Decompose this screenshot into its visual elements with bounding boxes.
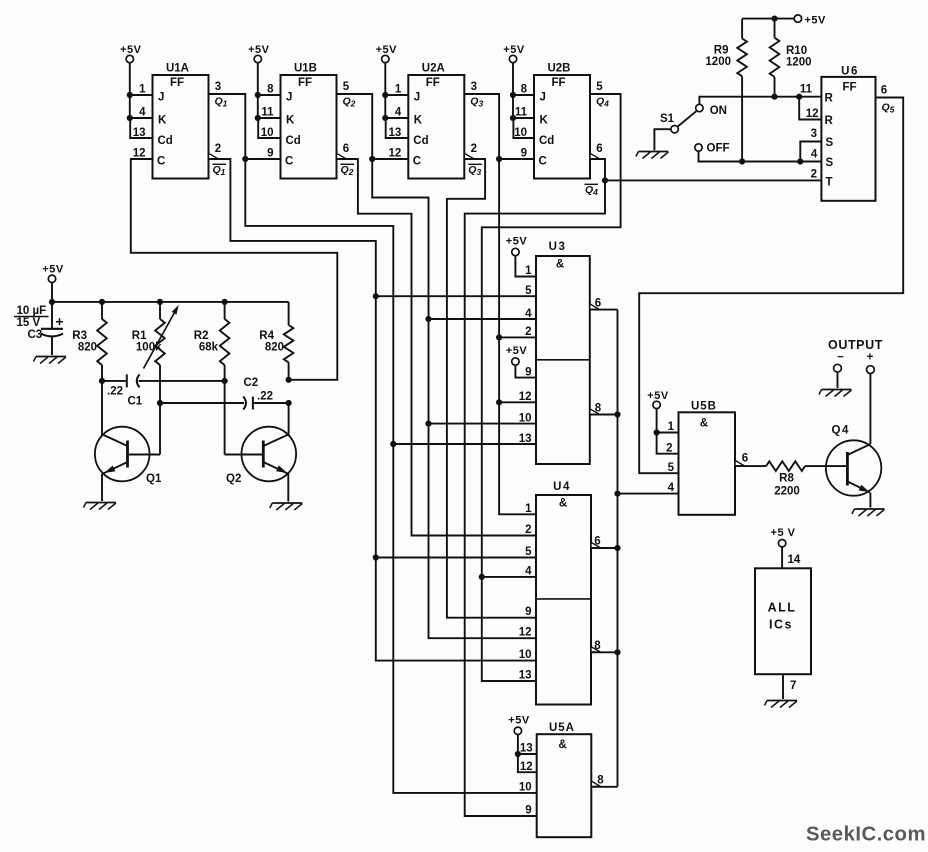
svg-text:820: 820 [78, 342, 97, 354]
svg-text:S: S [826, 157, 834, 169]
wire open-collector output bus (U3/U4/U5A outputs to U5B pin 4) [590, 310, 679, 787]
switch contact ON [696, 104, 727, 117]
svg-text:U2B: U2B [547, 63, 570, 75]
svg-text:R8: R8 [779, 473, 794, 485]
svg-text:10: 10 [514, 127, 527, 139]
wire U6 S pin 3 tie to pin 4 [800, 142, 821, 162]
svg-text:+5V: +5V [120, 44, 142, 56]
svg-text:Cd: Cd [539, 135, 554, 147]
wire net Q5 (U6 pin 6 to U5B pin 5) [639, 98, 903, 474]
svg-text:U1B: U1B [294, 63, 317, 75]
svg-text:T: T [826, 176, 833, 188]
svg-text:12: 12 [806, 108, 819, 120]
svg-text:10: 10 [261, 127, 274, 139]
svg-text:5: 5 [668, 462, 675, 474]
svg-text:FF: FF [170, 77, 184, 89]
resistor R2 68k [194, 302, 230, 381]
svg-text:12: 12 [520, 761, 533, 773]
ground for Q4 [852, 509, 885, 516]
svg-text:5: 5 [596, 81, 603, 93]
+5V supply terminal for oscillator [42, 264, 64, 302]
AND gate U3 (open-collector dual gate box) [519, 241, 602, 464]
svg-text:1200: 1200 [786, 57, 812, 69]
svg-text:C: C [539, 156, 547, 168]
flip-flop U2B (FF, J/K/Cd/C) [510, 63, 609, 179]
capacitor C3 (10uF 15V electrolytic) [14, 302, 63, 355]
svg-text:+5 V: +5 V [771, 527, 796, 539]
wire net Q̄1 (U1A pin 2 to U3 pin 5, U4 pins 5 and 10) [209, 159, 537, 661]
wire R1 to Q1 base [159, 403, 161, 455]
svg-text:U1A: U1A [166, 63, 189, 75]
svg-text:68k: 68k [199, 342, 219, 354]
svg-text:SeekIC.com: SeekIC.com [806, 824, 926, 846]
svg-text:OFF: OFF [707, 143, 730, 155]
ALL ICs power block [755, 568, 811, 699]
svg-text:1: 1 [668, 421, 675, 433]
wire net Q3 (U2A pin 3 to U2B clock, U3 pins 2 and 12, U4 pin 1) [464, 94, 536, 514]
svg-text:U6: U6 [841, 66, 859, 78]
svg-text:10: 10 [519, 649, 532, 661]
svg-text:R: R [825, 93, 834, 105]
+5V supply terminal top right [742, 14, 826, 26]
svg-text:9: 9 [525, 805, 531, 817]
svg-text:2: 2 [811, 169, 817, 181]
flip-flop U1B (FF, J/K/Cd/C) [255, 63, 356, 179]
wire U6 R pin 12 tie to pin 11 [799, 97, 821, 120]
svg-text:U2A: U2A [422, 63, 445, 75]
svg-text:15 V: 15 V [17, 317, 41, 329]
svg-text:Cd: Cd [158, 135, 173, 147]
svg-text:6: 6 [343, 143, 349, 155]
svg-text:R9: R9 [714, 45, 729, 57]
svg-text:+5V: +5V [805, 14, 827, 26]
flip-flop U6 (FF R R S S T) [800, 66, 895, 201]
svg-text:820: 820 [265, 342, 284, 354]
svg-text:&: & [559, 498, 567, 510]
svg-text:9: 9 [521, 148, 527, 160]
wire oscillator feedback to U1A clock (C pin 12) [131, 159, 337, 383]
svg-text:R2: R2 [194, 330, 209, 342]
+5V supply terminal for U5A [508, 715, 536, 773]
svg-text:S1: S1 [660, 113, 675, 125]
svg-text:R: R [825, 115, 834, 127]
svg-text:4: 4 [139, 107, 146, 119]
svg-text:1: 1 [139, 84, 146, 96]
svg-text:R3: R3 [72, 330, 87, 342]
svg-text:ALL: ALL [768, 601, 797, 615]
svg-text:4: 4 [525, 565, 532, 577]
ground for Q2 [270, 503, 303, 510]
svg-text:13: 13 [520, 743, 533, 755]
svg-text:.22: .22 [107, 386, 123, 398]
svg-text:Q2: Q2 [226, 473, 241, 485]
svg-text:6: 6 [742, 453, 748, 465]
svg-text:1: 1 [525, 503, 532, 515]
+5V supply terminal for U2A [376, 44, 398, 63]
svg-text:2: 2 [215, 143, 221, 155]
svg-text:.22: .22 [257, 391, 273, 403]
svg-text:S: S [826, 137, 834, 149]
svg-text:100k: 100k [136, 342, 162, 354]
svg-text:8: 8 [267, 84, 274, 96]
ground for C3 [34, 357, 67, 364]
svg-text:Cd: Cd [286, 135, 301, 147]
+5V supply terminal for U1A [120, 44, 142, 63]
svg-text:C: C [285, 156, 293, 168]
ground for Q1 [84, 503, 117, 510]
svg-text:K: K [286, 115, 295, 127]
svg-text:R4: R4 [259, 330, 274, 342]
svg-text:6: 6 [596, 143, 602, 155]
svg-text:+5V: +5V [647, 390, 669, 402]
svg-text:Q1: Q1 [146, 473, 162, 485]
wire OFF contact to U6 S pin 4 [699, 151, 822, 164]
svg-text:7: 7 [790, 680, 796, 692]
svg-text:5: 5 [525, 546, 532, 558]
OUTPUT terminals [828, 338, 883, 388]
svg-text:K: K [414, 115, 423, 127]
transistor Q1 (NPN) [95, 381, 162, 501]
svg-text:Q4: Q4 [832, 425, 850, 437]
AND gate U5B [666, 401, 748, 515]
capacitor C1 .22 and coupling wire [99, 374, 228, 407]
svg-text:3: 3 [215, 81, 221, 93]
svg-text:13: 13 [519, 433, 532, 445]
svg-text:FF: FF [551, 77, 565, 89]
svg-text:10: 10 [519, 412, 532, 424]
+5V supply terminal for U3 pin 1 [506, 236, 536, 277]
svg-text:1200: 1200 [705, 56, 731, 68]
wire net Q2 (U1B pin 5 to U2A clock, U3 pins 4 and 10, U4 pin 12) [337, 94, 537, 638]
svg-text:9: 9 [525, 366, 531, 378]
svg-text:J: J [286, 92, 292, 104]
ground for ALL ICs [765, 701, 798, 708]
svg-text:+5V: +5V [506, 236, 528, 248]
svg-text:12: 12 [519, 391, 532, 403]
ground for S1 [636, 152, 669, 159]
svg-text:K: K [540, 115, 549, 127]
transistor Q4 (NPN) [826, 374, 881, 508]
svg-text:+5V: +5V [42, 264, 64, 276]
switch contact OFF [695, 143, 730, 155]
svg-text:13: 13 [389, 127, 402, 139]
+5V supply terminal for U5B [647, 390, 678, 454]
svg-text:U3: U3 [549, 241, 567, 253]
svg-text:11: 11 [261, 107, 274, 119]
svg-text:FF: FF [298, 77, 312, 89]
svg-text:4: 4 [811, 149, 818, 161]
svg-text:4: 4 [525, 308, 532, 320]
svg-text:9: 9 [267, 148, 273, 160]
svg-text:3: 3 [471, 81, 477, 93]
svg-text:&: & [556, 259, 564, 271]
svg-text:+: + [867, 352, 874, 364]
wire ON contact to U6 R pin 11 [699, 94, 821, 105]
svg-text:13: 13 [519, 670, 532, 682]
svg-text:+5V: +5V [248, 44, 270, 56]
svg-text:11: 11 [515, 107, 528, 119]
svg-text:11: 11 [800, 84, 813, 96]
resistor R3 820 [72, 302, 107, 381]
svg-text:2: 2 [525, 524, 531, 536]
svg-text:9: 9 [525, 606, 531, 618]
wire R2 to Q2 base [224, 381, 226, 455]
svg-text:6: 6 [881, 85, 887, 97]
svg-text:2200: 2200 [774, 486, 800, 498]
svg-text:−: − [837, 352, 844, 364]
svg-text:C1: C1 [128, 396, 143, 408]
wire net Q̄4 (U2B pin 6 to U6 T pin 2 and U5A pin 9) [465, 159, 822, 816]
wire net Q4 (U2B pin 5 to U4 pins 4 and 13) [479, 94, 621, 681]
svg-text:J: J [414, 92, 420, 104]
svg-text:ICs: ICs [769, 618, 793, 632]
wire net Q̄2 (U1B pin 6 to U4 pin 2) [337, 159, 537, 536]
switch S1 (pole) [654, 111, 696, 150]
svg-text:1: 1 [525, 265, 532, 277]
svg-text:J: J [158, 92, 164, 104]
svg-text:FF: FF [426, 77, 440, 89]
svg-text:FF: FF [842, 82, 856, 94]
wire net Q̄3 (U2A pin 2 to U4 pin 9) [447, 159, 536, 618]
svg-text:10 µF: 10 µF [17, 305, 47, 317]
svg-text:C: C [157, 156, 165, 168]
+5V supply terminal for U1B [248, 44, 270, 63]
resistor R1 100k (variable) [132, 302, 181, 403]
svg-text:+5V: +5V [506, 345, 528, 357]
svg-text:4: 4 [395, 107, 402, 119]
svg-text:+5V: +5V [503, 44, 525, 56]
svg-text:&: & [558, 739, 566, 751]
svg-text:Cd: Cd [413, 135, 428, 147]
svg-text:8: 8 [521, 84, 528, 96]
svg-text:&: & [700, 418, 708, 430]
svg-text:5: 5 [343, 81, 350, 93]
svg-text:1: 1 [395, 84, 402, 96]
resistor R8 2200 [735, 461, 846, 497]
transistor Q2 (NPN) [225, 403, 296, 502]
svg-text:12: 12 [519, 627, 532, 639]
svg-text:C: C [413, 156, 421, 168]
svg-text:2: 2 [471, 143, 477, 155]
ground for OUTPUT minus terminal [819, 390, 852, 397]
svg-text:2: 2 [525, 326, 531, 338]
wire +5V rail of oscillator [49, 299, 289, 305]
svg-text:3: 3 [811, 128, 817, 140]
svg-text:U4: U4 [553, 481, 571, 493]
svg-text:+5V: +5V [376, 44, 398, 56]
svg-text:R10: R10 [786, 45, 807, 57]
AND gate U4 (open-collector dual gate box) [519, 481, 602, 705]
svg-text:13: 13 [133, 127, 146, 139]
svg-text:U5B: U5B [691, 401, 717, 413]
svg-text:4: 4 [668, 482, 675, 494]
svg-text:12: 12 [389, 148, 402, 160]
svg-text:J: J [540, 92, 546, 104]
+5V supply terminal for U3 pin 9 [506, 345, 536, 378]
+5V supply terminal for U2B [503, 44, 525, 63]
+5V supply terminal for ALL ICs [771, 527, 801, 568]
svg-text:OUTPUT: OUTPUT [828, 338, 883, 352]
flip-flop U1A (FF, J/K/Cd/C) [127, 63, 228, 179]
svg-text:C2: C2 [244, 377, 259, 389]
svg-text:C3: C3 [28, 329, 43, 341]
resistor R9 1200 [705, 19, 746, 162]
resistor R4 820 [259, 302, 293, 380]
AND gate U5A [519, 722, 604, 837]
svg-text:10: 10 [519, 782, 532, 794]
label Q̄4 under U2B [585, 184, 599, 197]
svg-text:U5A: U5A [549, 722, 575, 734]
svg-text:ON: ON [710, 105, 727, 117]
svg-text:12: 12 [133, 148, 146, 160]
svg-text:5: 5 [525, 285, 532, 297]
capacitor C2 .22 and coupling wire [157, 377, 292, 410]
svg-text:R1: R1 [132, 330, 147, 342]
wire net Q1 (U1A pin 3 to U1B clock, U3 pin 13, U5A pin 10) [209, 94, 537, 793]
svg-text:+5V: +5V [508, 715, 530, 727]
svg-text:K: K [158, 115, 167, 127]
svg-text:2: 2 [666, 443, 672, 455]
svg-text:14: 14 [788, 554, 801, 566]
flip-flop U2A (FF, J/K/Cd/C) [382, 63, 483, 179]
resistor R10 1200 [770, 19, 812, 97]
